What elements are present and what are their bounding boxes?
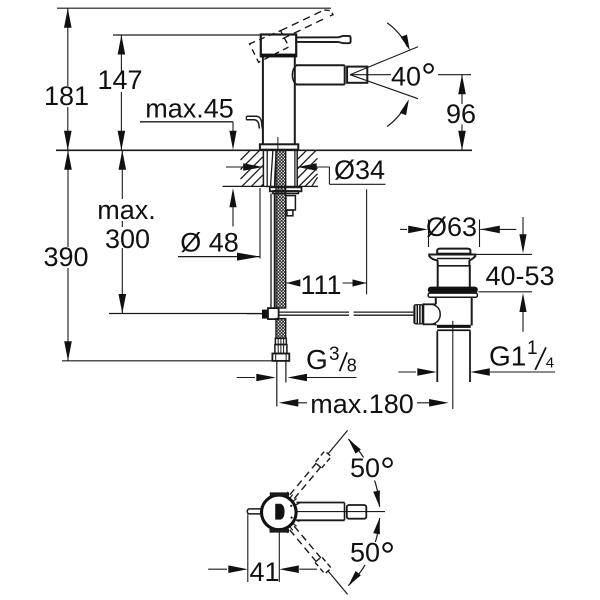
extension line pop-up rod level (max.300 ref) — [109, 313, 247, 315]
dimension max.180 — [279, 399, 299, 407]
rod joint block — [262, 310, 268, 319]
extension line 111 right — [366, 189, 368, 294]
aerator — [347, 67, 367, 83]
extension line dia63 left — [428, 220, 430, 248]
dimension G 3/8 thread — [256, 374, 276, 382]
drain side port — [423, 303, 436, 325]
svg-text:max.180: max.180 — [310, 389, 414, 419]
shank left wall — [266, 150, 268, 187]
mounting nut — [273, 191, 299, 194]
extension line top of raised lever (181 ref) — [57, 7, 331, 9]
dimension 181 vertical — [67, 8, 69, 150]
drain tailpipe — [436, 331, 438, 382]
svg-text:Ø 48: Ø 48 — [180, 228, 239, 258]
svg-text:40: 40 — [391, 61, 421, 91]
flexible hose braid lower — [276, 319, 286, 339]
svg-text:111: 111 — [300, 270, 341, 300]
faucet body — [262, 57, 264, 144]
faucet base plate — [260, 144, 298, 149]
lever handle horizontal — [296, 36, 339, 38]
dimension G1 1/4 thread — [398, 371, 416, 373]
mounting hole left edge — [262, 150, 264, 186]
extension line drain flange top — [476, 253, 532, 255]
drain washer — [428, 293, 477, 297]
svg-text:1: 1 — [527, 338, 538, 359]
svg-text:300: 300 — [105, 224, 150, 254]
extension line dia63 right — [479, 220, 481, 248]
extension line drain oring bottom — [478, 291, 532, 293]
dimension 96 vertical — [461, 75, 463, 151]
deck top line — [56, 149, 472, 151]
hose stub fitting — [286, 196, 296, 210]
dimension 41 — [247, 515, 249, 583]
extension line bottom of supply hose (390 ref) — [62, 360, 273, 362]
drain plug cap — [437, 249, 470, 254]
second hose tube below nut — [270, 194, 272, 308]
drain body lower — [435, 297, 437, 304]
svg-text:41: 41 — [249, 557, 279, 587]
drain body upper — [437, 266, 439, 287]
circle top flat — [270, 492, 289, 496]
hose hex section — [275, 345, 287, 354]
lever bar top view — [297, 502, 345, 504]
svg-text:96: 96 — [446, 99, 476, 129]
drain o-ring — [428, 287, 478, 293]
faucet base centerline tick — [277, 137, 279, 150]
drain adjustment knob — [413, 304, 423, 324]
raised lever dashed top view upper — [294, 467, 321, 499]
pop-up lifter knob — [246, 116, 262, 128]
tube below G38 nut — [276, 361, 278, 407]
svg-text:max.45: max.45 — [145, 93, 234, 123]
drain coupling bands — [437, 325, 471, 328]
dimension 40 degree spray angle — [350, 74, 471, 76]
svg-text:50: 50 — [350, 453, 380, 483]
dimension 111 — [286, 279, 300, 286]
lever D mark — [276, 504, 284, 519]
dimension 147 vertical — [120, 35, 122, 150]
drain flange — [428, 254, 476, 256]
pop-up rod tip — [247, 313, 262, 315]
svg-text:40-53: 40-53 — [485, 261, 554, 291]
hose crimp ferrule — [275, 338, 286, 344]
flexible hose braid upper — [276, 150, 286, 308]
dimension dia34 — [226, 166, 263, 168]
pop-up rod right span — [354, 311, 414, 313]
extension line dia48 left — [259, 188, 261, 259]
svg-text:G1: G1 — [489, 341, 526, 372]
svg-text:50: 50 — [350, 538, 380, 568]
center line top view — [297, 511, 386, 513]
svg-text:181: 181 — [44, 81, 89, 111]
spout stub top view — [247, 509, 260, 514]
svg-text:max.: max. — [97, 195, 156, 225]
lever handle raised dashed — [250, 31, 290, 63]
dimension dia63 — [400, 228, 407, 230]
raised lever dashed top view lower — [290, 530, 317, 562]
drain centerline — [452, 321, 454, 409]
mounting washer — [270, 187, 302, 191]
svg-text:390: 390 — [43, 242, 88, 272]
faucet head cap — [261, 35, 296, 57]
svg-text:4: 4 — [546, 355, 554, 372]
bottom view faucet circle — [262, 495, 297, 530]
detail dots — [290, 505, 292, 507]
hose tube curved walls — [271, 151, 273, 187]
deck bottom line — [223, 185, 319, 187]
deck hatch left block — [241, 150, 251, 160]
shank right wall — [294, 150, 296, 187]
svg-text:Ø63: Ø63 — [426, 212, 477, 242]
mounting hole right edge — [296, 150, 298, 186]
extension line top of faucet head (147 ref) — [113, 34, 261, 36]
G38 connection nut — [272, 354, 289, 361]
pop-up rod left span — [279, 311, 349, 313]
deck hatch right block — [297, 150, 306, 159]
spout — [296, 64, 345, 66]
svg-text:G: G — [306, 344, 328, 375]
svg-text:8: 8 — [347, 355, 357, 375]
lever grip top view — [347, 505, 367, 519]
svg-text:147: 147 — [97, 65, 142, 95]
dimension max.300 vertical — [121, 150, 123, 313]
svg-text:3: 3 — [329, 344, 340, 365]
svg-text:Ø34: Ø34 — [334, 155, 385, 185]
dimension 50 degree lower — [348, 518, 379, 586]
dimension 50 degree upper — [348, 439, 379, 507]
circle bottom flat — [270, 529, 290, 533]
knurl ticks on circle — [295, 503, 300, 505]
dimension 390 vertical — [67, 150, 69, 360]
